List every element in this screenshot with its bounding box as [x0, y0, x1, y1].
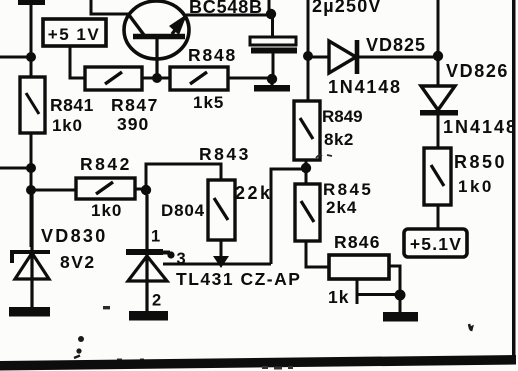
- svg-text:R850: R850: [454, 152, 507, 172]
- svg-text:8k2: 8k2: [324, 130, 354, 149]
- node junction dot base: [152, 73, 162, 83]
- wire horizontal to left edge lower: [0, 167, 31, 170]
- scan mark dash artifact: [103, 306, 110, 309]
- svg-text:1N4148: 1N4148: [328, 77, 402, 97]
- wire R847 to R848: [142, 77, 170, 80]
- value 1N4148 of VD826: [443, 117, 518, 137]
- wire R850 to +5.1V box: [437, 205, 440, 229]
- svg-text:1: 1: [151, 228, 160, 246]
- component stub top-left (cut off box bottom): [18, 0, 45, 5]
- pin 3 label: [177, 250, 186, 268]
- resistor R845: [295, 184, 320, 241]
- node junction dot R842 right: [141, 185, 151, 195]
- wire vertical rail x308 top: [307, 0, 310, 101]
- label 2u250V: [312, 0, 382, 16]
- wire R846 wiper: [357, 279, 400, 304]
- shunt regulator D804 TL431: [126, 195, 175, 311]
- wire left rail mid segment: [30, 133, 33, 247]
- label R846: [334, 232, 381, 252]
- ground under R846: [383, 312, 418, 322]
- resistor R847: [85, 67, 142, 90]
- value 1k of R846: [328, 287, 349, 307]
- wire left rail to R842: [31, 189, 76, 192]
- ground under VD830: [9, 307, 50, 317]
- svg-text:R845: R845: [323, 180, 373, 199]
- diode VD825: [312, 40, 438, 74]
- border bottom bar: [0, 355, 516, 371]
- wire R843 to ref wire with arrow junction: [213, 240, 229, 268]
- resistor R843: [208, 180, 235, 240]
- value 8k2 of R849: [324, 130, 354, 149]
- value 1k0 of R842: [91, 201, 122, 220]
- ground under TL431: [129, 311, 168, 321]
- svg-text:TL431 CZ-AP: TL431 CZ-AP: [176, 269, 301, 289]
- svg-text:+5 1V: +5 1V: [48, 25, 100, 44]
- resistor R842: [76, 178, 135, 199]
- svg-text:1k0: 1k0: [52, 116, 83, 135]
- svg-text:VD825: VD825: [366, 35, 426, 55]
- label TL431 CZ-AP: [176, 269, 301, 289]
- svg-text:R843: R843: [199, 144, 251, 164]
- scan speckles above bottom bar: [117, 359, 144, 362]
- node junction dot VD826: [433, 51, 443, 61]
- scan mark colon artifact: [74, 336, 84, 358]
- label R847: [111, 95, 159, 115]
- scan mark tick artifact: [469, 324, 472, 331]
- node junction dot VD825 anode: [303, 51, 313, 61]
- label R843: [199, 144, 251, 164]
- capacitor C 2u250V: [250, 15, 297, 78]
- label +5.1V supply box: [404, 229, 467, 257]
- wire left rail top segment: [30, 2, 33, 77]
- label VD830: [41, 226, 108, 246]
- svg-text:VD830: VD830: [41, 226, 108, 246]
- value 390 of R847: [117, 114, 149, 134]
- zener diode VD830: [12, 190, 50, 307]
- value 1k5 of R848: [193, 93, 224, 112]
- scan mark above R845: [316, 155, 332, 158]
- ground under capacitor: [254, 79, 290, 92]
- wire TL431 ref pin: [163, 263, 271, 266]
- svg-text:2k4: 2k4: [326, 198, 357, 217]
- svg-text:1k0: 1k0: [458, 177, 494, 196]
- value 2k4 of R845: [326, 198, 357, 217]
- svg-text:1k0: 1k0: [91, 201, 122, 220]
- transistor Q BC548B: [124, 1, 189, 78]
- resistor R850: [424, 148, 451, 205]
- resistor R848: [170, 67, 228, 90]
- svg-text:VD826: VD826: [446, 61, 509, 81]
- label VD826: [446, 61, 509, 81]
- svg-text:8V2: 8V2: [60, 252, 96, 272]
- value 1k0 of R841: [52, 116, 83, 135]
- svg-text:D804: D804: [161, 201, 205, 220]
- wire R845 to R846: [306, 241, 329, 267]
- label R841: [50, 95, 94, 115]
- label R850: [454, 152, 507, 172]
- diode VD826: [420, 86, 458, 148]
- node junction dot upper-left: [26, 52, 36, 62]
- value 8V2 of VD830: [60, 252, 96, 272]
- label +5 1V supply box: [43, 19, 106, 46]
- svg-text:1k: 1k: [328, 287, 349, 307]
- svg-text:R841: R841: [50, 95, 94, 115]
- potentiometer R846: [329, 255, 389, 279]
- label R848: [188, 45, 237, 65]
- wire collector to top edge: [91, 0, 130, 14]
- label R842: [80, 154, 132, 174]
- svg-text:2: 2: [152, 292, 161, 310]
- pin 2 label: [152, 292, 161, 310]
- wire R846 right to ground: [389, 266, 400, 312]
- resistor R841: [20, 77, 45, 133]
- wire up and over to R843: [146, 164, 221, 190]
- label BC548B: [189, 0, 263, 17]
- svg-text:2µ250V: 2µ250V: [312, 0, 382, 16]
- border right edge: [512, 0, 516, 358]
- value 1N4148 of VD825: [328, 77, 402, 97]
- node junction dot ref node: [301, 163, 311, 173]
- svg-text:390: 390: [117, 114, 149, 134]
- svg-text:R849: R849: [322, 107, 363, 126]
- node junction dot R842 tap: [26, 185, 36, 195]
- label R849: [322, 107, 363, 126]
- pin 1 label: [151, 228, 160, 246]
- svg-text:+5.1V: +5.1V: [410, 234, 462, 254]
- label VD825: [366, 35, 426, 55]
- wire R848 to capacitor bottom node: [228, 77, 272, 80]
- label D804: [161, 201, 205, 220]
- wire R842 to TL431 cathode node: [135, 188, 146, 191]
- node junction dot mid-left: [26, 163, 36, 173]
- node junction dot below capacitor: [267, 74, 277, 84]
- wire vertical rail x438 top: [437, 0, 440, 86]
- svg-text:R846: R846: [334, 232, 381, 252]
- svg-text:22k: 22k: [235, 183, 273, 203]
- node junction dot above capacitor: [266, 9, 276, 19]
- value 1k0 of R850: [458, 177, 494, 196]
- wire emitter to capacitor node: [186, 0, 271, 15]
- wire ref node down to TL431 ref wire: [271, 169, 306, 264]
- resistor R849: [294, 101, 320, 160]
- wire R849 to R845: [305, 160, 308, 184]
- wire horizontal to left edge upper: [0, 56, 31, 59]
- svg-text:1N4148: 1N4148: [443, 117, 518, 137]
- svg-text:1k5: 1k5: [193, 93, 224, 112]
- svg-text:R847: R847: [111, 95, 159, 115]
- node junction dot R846: [395, 290, 406, 301]
- svg-text:R842: R842: [80, 154, 132, 174]
- wire from +5 1V box to R847: [70, 46, 85, 78]
- value 22k of R843: [235, 183, 273, 203]
- svg-text:R848: R848: [188, 45, 237, 65]
- label R845: [323, 180, 373, 199]
